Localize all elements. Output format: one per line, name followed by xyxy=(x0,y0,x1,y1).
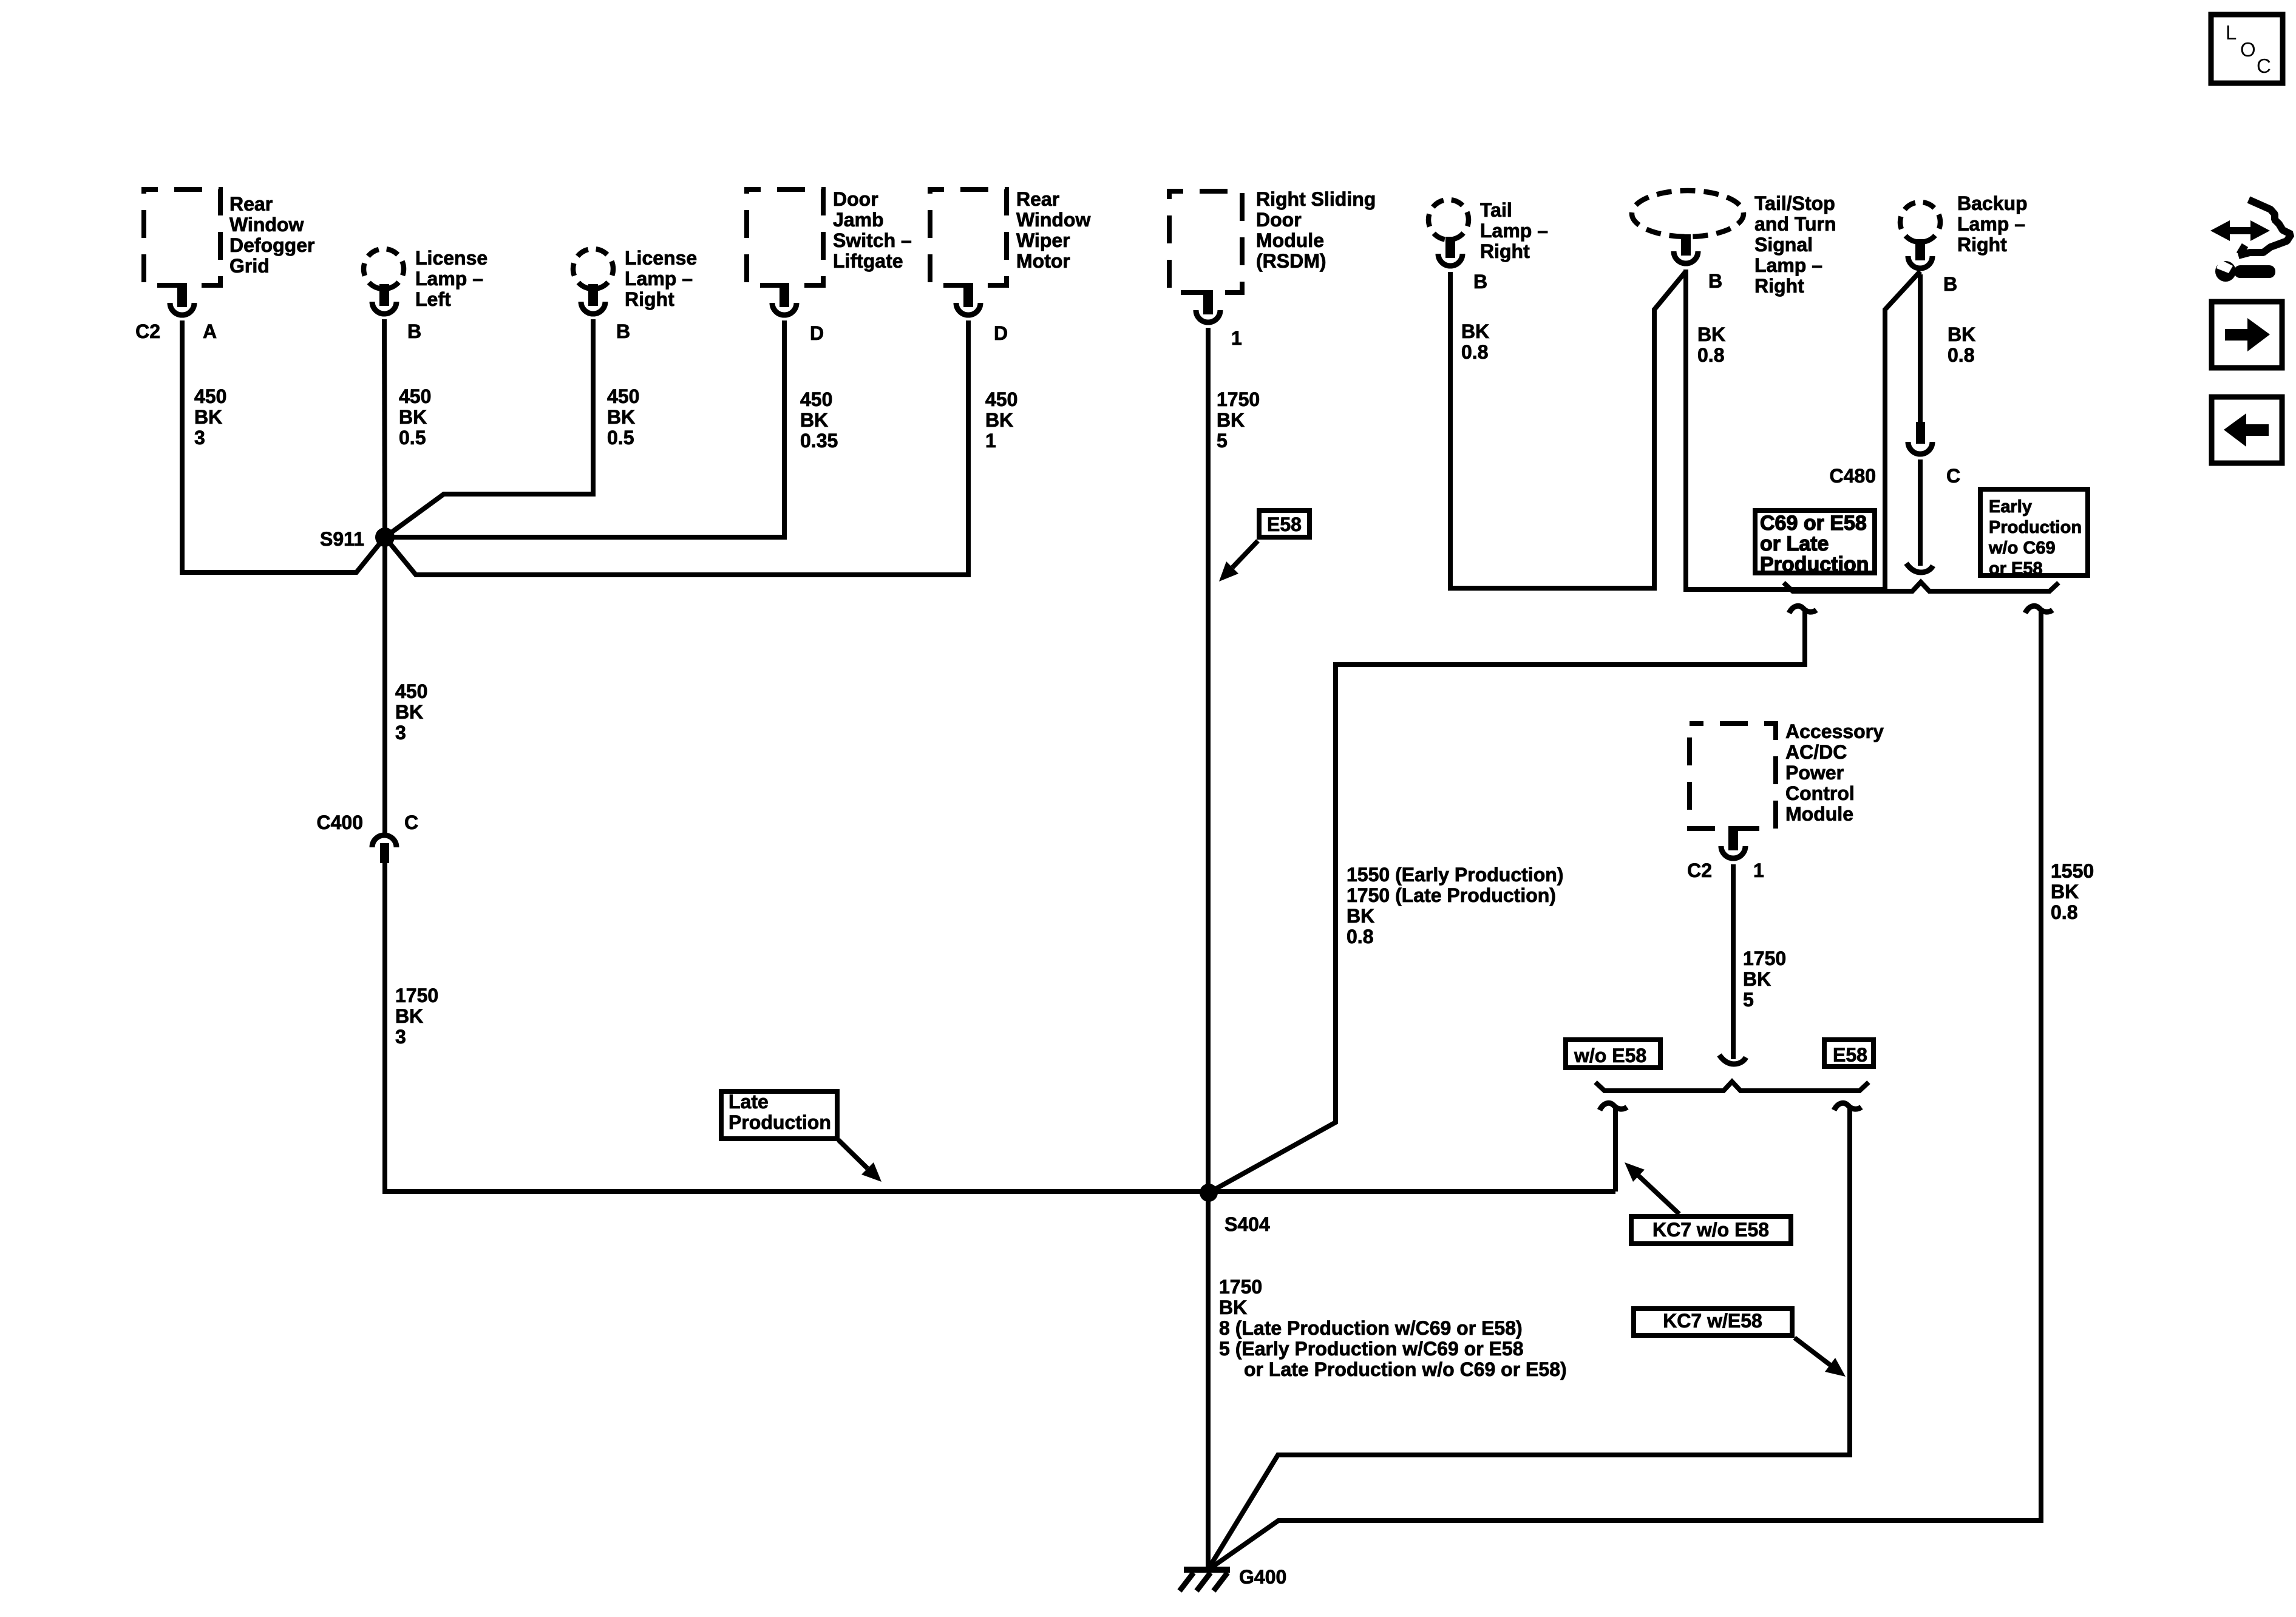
svg-text:1: 1 xyxy=(1753,859,1764,881)
wire 1750 BK 5 from RSDM down to S404 xyxy=(1208,328,1260,1192)
svg-text:BK: BK xyxy=(395,1005,423,1027)
svg-text:Left: Left xyxy=(415,288,451,310)
option box: Early Production w/o C69 or E58 xyxy=(1980,489,2088,578)
wire from S404 right to w/o E58 drop xyxy=(1209,1189,1615,1194)
svg-text:S404: S404 xyxy=(1224,1213,1270,1235)
svg-text:B: B xyxy=(1943,273,1957,295)
svg-text:C: C xyxy=(404,812,418,833)
svg-text:D: D xyxy=(810,322,824,344)
right sliding door module RSDM (dashed box) xyxy=(1169,188,1376,293)
rear window defogger grid (dashed box) xyxy=(144,189,314,285)
svg-text:Lamp –: Lamp – xyxy=(1754,254,1822,276)
svg-text:or Late: or Late xyxy=(1760,532,1829,555)
svg-text:Lamp –: Lamp – xyxy=(1957,213,2025,235)
svg-text:BK: BK xyxy=(2051,881,2079,903)
svg-text:C400: C400 xyxy=(317,812,364,833)
left option drop (C69/E58/Late) with curl, to S404 diagonal xyxy=(1209,606,1816,1193)
svg-text:5: 5 xyxy=(1217,430,1228,452)
svg-text:D: D xyxy=(994,322,1008,344)
svg-text:or Late Production w/o C69 or: or Late Production w/o C69 or E58) xyxy=(1244,1358,1567,1380)
svg-text:BK: BK xyxy=(1219,1297,1247,1318)
connector pin B below tail lamp right xyxy=(1438,237,1487,293)
callout box Late Production with arrow to S404 wire xyxy=(721,1091,881,1182)
svg-text:C69 or E58: C69 or E58 xyxy=(1760,512,1867,535)
svg-text:w/o C69: w/o C69 xyxy=(1988,538,2056,558)
option box: C69 or E58 or Late Production xyxy=(1755,510,1875,576)
svg-text:and Turn: and Turn xyxy=(1754,213,1836,235)
svg-text:C2: C2 xyxy=(1687,859,1712,881)
connector C2 pin A below defogger xyxy=(135,283,217,342)
svg-text:Production: Production xyxy=(729,1111,831,1133)
option brace under accessory wire xyxy=(1595,1082,1869,1091)
svg-text:Right: Right xyxy=(1480,240,1530,262)
wire 450 BK 0.35 door jamb switch to S911 xyxy=(385,320,838,537)
svg-text:3: 3 xyxy=(395,1026,406,1048)
svg-text:0.5: 0.5 xyxy=(399,427,426,449)
svg-text:B: B xyxy=(1473,271,1487,293)
accessory AC/DC power control module (dashed box) xyxy=(1690,720,1884,829)
svg-text:0.8: 0.8 xyxy=(1948,344,1974,366)
backup lamp - right (dashed circle) xyxy=(1900,192,2028,256)
svg-text:Defogger: Defogger xyxy=(229,234,314,256)
svg-text:3: 3 xyxy=(395,722,406,744)
right option drop (Early Prod w/o C69/E58) 1550 BK 0.8 down to ground run xyxy=(1207,606,2094,1570)
svg-text:450: 450 xyxy=(985,388,1017,410)
LOC reference box (top right) xyxy=(2211,15,2283,83)
callout box E58 pointing at RSDM wire xyxy=(1219,510,1309,581)
left drop (w/o E58) down to S404 horizontal xyxy=(1600,1103,1627,1192)
svg-text:Window: Window xyxy=(229,214,304,236)
svg-text:BK: BK xyxy=(395,701,423,723)
svg-text:KC7 w/E58: KC7 w/E58 xyxy=(1663,1310,1762,1332)
svg-text:C: C xyxy=(1946,465,1960,487)
svg-text:O: O xyxy=(2240,38,2256,61)
svg-text:Switch –: Switch – xyxy=(833,229,912,251)
svg-text:or E58: or E58 xyxy=(1989,559,2043,578)
svg-text:BK: BK xyxy=(1347,905,1374,927)
svg-text:1750: 1750 xyxy=(1743,947,1786,969)
wire 450 BK 3 from defogger C2-A to S911 xyxy=(182,320,385,572)
svg-text:B: B xyxy=(407,320,421,342)
svg-text:BK: BK xyxy=(985,409,1013,431)
connector pin D below wiper motor xyxy=(956,283,1008,344)
svg-text:Door: Door xyxy=(833,188,878,210)
svg-text:450: 450 xyxy=(607,385,639,407)
option box E58 xyxy=(1824,1040,1873,1066)
wire 1750 BK 5 accessory module to option split xyxy=(1719,864,1786,1064)
svg-text:Liftgate: Liftgate xyxy=(833,250,903,272)
wire 450 BK 0.5 license lamp right to S911 xyxy=(385,319,639,537)
svg-text:Lamp –: Lamp – xyxy=(625,268,693,290)
svg-text:Right: Right xyxy=(1754,275,1804,297)
connector pin B below tail/stop lamp xyxy=(1674,234,1722,292)
ground G400 symbol xyxy=(1180,1566,1286,1591)
svg-text:BK: BK xyxy=(607,406,635,428)
svg-text:C2: C2 xyxy=(135,320,160,342)
svg-text:BK: BK xyxy=(399,406,427,428)
svg-text:AC/DC: AC/DC xyxy=(1785,741,1847,763)
svg-text:1750 (Late Production): 1750 (Late Production) xyxy=(1347,884,1556,906)
svg-text:BK: BK xyxy=(800,409,828,431)
svg-text:BK: BK xyxy=(1697,324,1725,345)
svg-text:w/o E58: w/o E58 xyxy=(1574,1045,1646,1066)
diagnostic info icon (double arrow, part outline, wrench) xyxy=(2210,200,2291,282)
svg-text:0.5: 0.5 xyxy=(607,427,634,449)
svg-text:Tail/Stop: Tail/Stop xyxy=(1754,192,1835,214)
svg-text:B: B xyxy=(616,320,630,342)
in-line connector C400 pin C xyxy=(317,812,419,863)
svg-text:450: 450 xyxy=(399,385,431,407)
wire BK 0.8 backup lamp down to C480 xyxy=(1920,274,1975,422)
svg-text:450: 450 xyxy=(395,680,427,702)
wire BK 0.8 tail/stop lamp to backup lamp branch xyxy=(1686,269,1920,589)
svg-text:Door: Door xyxy=(1256,209,1302,231)
svg-text:0.8: 0.8 xyxy=(1461,341,1488,363)
svg-text:S911: S911 xyxy=(320,528,364,550)
svg-text:8 (Late Production w/C69 or E5: 8 (Late Production w/C69 or E58) xyxy=(1219,1317,1523,1339)
svg-text:450: 450 xyxy=(194,385,226,407)
svg-text:G400: G400 xyxy=(1239,1566,1286,1588)
wire 450 BK 3 from S911 down to C400 xyxy=(385,537,427,833)
option box w/o E58 xyxy=(1566,1040,1660,1068)
license lamp - right (dashed circle) xyxy=(573,247,697,310)
wire from C480 down to option split xyxy=(1906,459,1933,572)
svg-text:1750: 1750 xyxy=(395,985,438,1006)
svg-text:(RSDM): (RSDM) xyxy=(1256,250,1326,272)
svg-text:A: A xyxy=(203,320,217,342)
svg-text:Tail: Tail xyxy=(1480,199,1512,221)
splice S911 xyxy=(320,527,395,550)
connector pin B below license lamp left xyxy=(372,284,421,342)
svg-text:Right: Right xyxy=(625,288,674,310)
svg-text:0.35: 0.35 xyxy=(800,430,838,452)
svg-text:Grid: Grid xyxy=(229,255,270,277)
svg-text:1550: 1550 xyxy=(2051,860,2094,882)
svg-text:C480: C480 xyxy=(1830,465,1877,487)
svg-text:Rear: Rear xyxy=(229,193,273,215)
svg-text:Signal: Signal xyxy=(1754,234,1813,256)
door jamb switch - liftgate (dashed box) xyxy=(747,188,912,285)
rear window wiper motor (dashed box) xyxy=(930,188,1090,285)
svg-text:1750: 1750 xyxy=(1217,388,1260,410)
svg-text:BK: BK xyxy=(194,406,222,428)
backward arrow box xyxy=(2212,397,2282,463)
svg-text:Lamp –: Lamp – xyxy=(1480,220,1548,242)
svg-text:Backup: Backup xyxy=(1957,192,2028,214)
svg-text:Production: Production xyxy=(1760,553,1869,576)
svg-text:BK: BK xyxy=(1743,968,1771,990)
right drop (E58) down to ground run xyxy=(1207,1103,1861,1570)
callout box KC7 w/o E58 with arrow to w/o E58 drop xyxy=(1625,1162,1791,1244)
connector pin 1 below RSDM xyxy=(1196,290,1242,349)
svg-text:Control: Control xyxy=(1785,782,1855,804)
callout box KC7 w/E58 with arrow to E58 drop xyxy=(1634,1309,1846,1377)
wire BK 0.8 tail lamp to tail/stop lamp xyxy=(1450,271,1686,588)
svg-text:Production: Production xyxy=(1989,518,2082,537)
wire 1750 BK 3 from C400 down and right to S404 xyxy=(385,862,1206,1192)
connector pin B below license lamp right xyxy=(581,284,630,342)
svg-text:Lamp –: Lamp – xyxy=(415,268,483,290)
svg-text:0.8: 0.8 xyxy=(2051,901,2077,923)
svg-text:E58: E58 xyxy=(1833,1044,1867,1066)
svg-text:BK: BK xyxy=(1217,409,1245,431)
svg-text:BK: BK xyxy=(1948,324,1975,345)
wire 450 BK 0.5 license lamp left to S911 xyxy=(384,319,431,537)
license lamp - left (dashed circle) xyxy=(364,247,487,310)
svg-text:Early: Early xyxy=(1989,497,2032,517)
svg-text:Module: Module xyxy=(1785,803,1853,825)
svg-text:1550 (Early Production): 1550 (Early Production) xyxy=(1347,864,1563,886)
svg-text:Rear: Rear xyxy=(1016,188,1059,210)
wire S404 down to ground G400 xyxy=(1206,1193,1211,1570)
svg-text:BK: BK xyxy=(1461,320,1489,342)
splice S404 xyxy=(1200,1184,1270,1235)
svg-text:1750: 1750 xyxy=(1219,1276,1262,1298)
svg-text:Accessory: Accessory xyxy=(1785,720,1884,742)
svg-text:0.8: 0.8 xyxy=(1347,926,1373,947)
tail/stop and turn signal lamp - right (dashed ellipse) xyxy=(1632,191,1836,297)
svg-text:450: 450 xyxy=(800,388,832,410)
forward arrow box xyxy=(2212,302,2282,368)
svg-text:C: C xyxy=(2257,55,2271,77)
svg-text:License: License xyxy=(415,247,487,269)
svg-text:0.8: 0.8 xyxy=(1697,344,1724,366)
svg-text:L: L xyxy=(2226,21,2237,44)
svg-text:Right: Right xyxy=(1957,234,2007,256)
connector pin D below door jamb switch xyxy=(772,283,824,344)
wire label 1750 BK 8/5 below S404 xyxy=(1219,1276,1567,1380)
svg-text:Power: Power xyxy=(1785,762,1844,784)
connector pin B below backup lamp xyxy=(1908,239,1957,295)
svg-text:E58: E58 xyxy=(1267,514,1302,535)
in-line connector C480 pin C xyxy=(1830,422,1961,487)
wire 450 BK 1 wiper motor to S911 xyxy=(385,320,1017,575)
svg-text:3: 3 xyxy=(194,427,205,449)
svg-text:5 (Early Production w/C69 or E: 5 (Early Production w/C69 or E58 xyxy=(1219,1338,1523,1360)
svg-text:Late: Late xyxy=(729,1091,769,1113)
svg-text:5: 5 xyxy=(1743,989,1754,1011)
svg-text:Motor: Motor xyxy=(1016,250,1070,272)
svg-text:B: B xyxy=(1708,270,1722,292)
connector C2 pin 1 below accessory module xyxy=(1687,826,1764,881)
svg-text:License: License xyxy=(625,247,697,269)
svg-text:1: 1 xyxy=(985,430,996,452)
option brace under C480 xyxy=(1784,582,2059,591)
svg-text:Wiper: Wiper xyxy=(1016,229,1070,251)
svg-text:KC7 w/o E58: KC7 w/o E58 xyxy=(1652,1219,1769,1241)
svg-text:1: 1 xyxy=(1231,327,1242,349)
svg-text:Jamb: Jamb xyxy=(833,209,884,231)
svg-text:Right Sliding: Right Sliding xyxy=(1256,188,1376,210)
svg-text:Window: Window xyxy=(1016,209,1090,231)
tail lamp - right (dashed circle) xyxy=(1428,199,1548,262)
svg-text:Module: Module xyxy=(1256,229,1324,251)
